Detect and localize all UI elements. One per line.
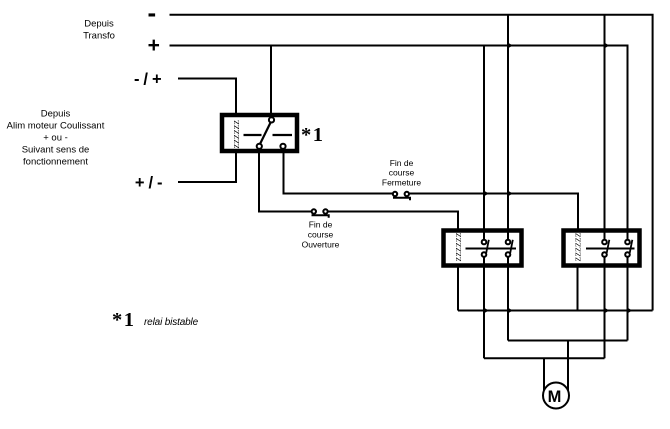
svg-text:+: + — [148, 34, 160, 57]
svg-text:Fin de: Fin de — [309, 220, 333, 230]
svg-text:M: M — [548, 388, 562, 406]
svg-text:fonctionnement: fonctionnement — [23, 157, 88, 168]
svg-text:-: - — [147, 0, 156, 28]
svg-text:*1: *1 — [112, 309, 136, 331]
svg-text:Transfo: Transfo — [83, 31, 115, 42]
svg-text:+/-: +/- — [135, 174, 167, 192]
svg-text:Fin de: Fin de — [390, 158, 414, 168]
svg-text:Alim moteur Coulissant: Alim moteur Coulissant — [7, 121, 105, 132]
svg-text:Fermeture: Fermeture — [382, 178, 421, 188]
svg-text:course: course — [389, 168, 415, 178]
svg-text:Ouverture: Ouverture — [302, 240, 340, 250]
svg-text:-/+: -/+ — [134, 71, 166, 89]
svg-text:course: course — [308, 230, 334, 240]
svg-text:Depuis: Depuis — [41, 109, 71, 120]
svg-text:ZZZZZZ: ZZZZZZ — [232, 120, 241, 149]
svg-text:ZZZZZZ: ZZZZZZ — [454, 232, 463, 261]
svg-text:+ ou -: + ou - — [43, 133, 68, 144]
svg-text:Suivant sens de: Suivant sens de — [22, 145, 90, 156]
svg-text:Depuis: Depuis — [84, 19, 114, 30]
svg-text:*1: *1 — [301, 124, 325, 146]
svg-text:relai bistable: relai bistable — [144, 317, 199, 328]
svg-text:ZZZZZZ: ZZZZZZ — [574, 232, 583, 261]
